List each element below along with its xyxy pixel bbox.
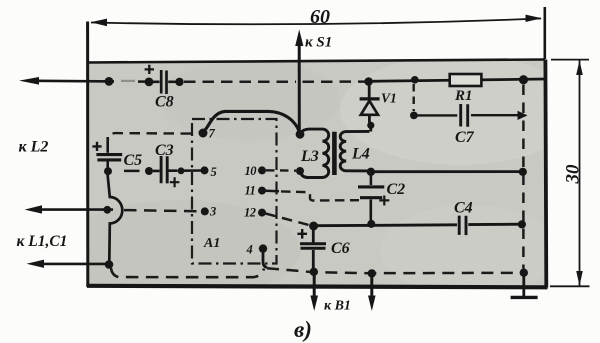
board outline left edge (with dimension tick extension) bbox=[86, 22, 89, 288]
dimension 60 left arrowhead bbox=[91, 19, 108, 27]
capacitor C3 bbox=[153, 156, 179, 187]
node (rail right end) bbox=[519, 75, 528, 84]
wire to L1 (left arrow, middle) bbox=[40, 208, 113, 211]
transformer winding L4 bbox=[340, 131, 370, 171]
wire к B1 (down arrow 1) bbox=[313, 274, 316, 297]
wire dashed right bus (vertical) bbox=[522, 85, 525, 269]
ground bbox=[511, 275, 538, 298]
capacitor C7 bbox=[417, 104, 518, 127]
svg-text:C8: C8 bbox=[155, 94, 174, 111]
resistor R1 bbox=[450, 74, 482, 86]
node (top-left junction) bbox=[105, 77, 114, 86]
svg-text:V1: V1 bbox=[381, 91, 397, 106]
node (lower rail right) bbox=[518, 220, 526, 228]
svg-text:к S1: к S1 bbox=[305, 35, 332, 51]
node (bottom-left junction) bbox=[105, 260, 114, 269]
svg-text:R1: R1 bbox=[454, 88, 473, 104]
svg-text:C6: C6 bbox=[331, 240, 350, 257]
pin 11 bbox=[258, 187, 266, 195]
svg-text:30: 30 bbox=[563, 164, 584, 185]
wire left vertical trace with crossover hop bbox=[108, 174, 123, 263]
dimension 30 line bbox=[579, 61, 581, 286]
transformer winding L3 bbox=[301, 129, 329, 177]
board outline top edge bbox=[88, 60, 546, 63]
node (rail / R1-C7 link) bbox=[411, 76, 419, 84]
wire top rail (solid, right) bbox=[369, 79, 545, 81]
capacitor C6 bbox=[297, 228, 326, 269]
node (C8 right) bbox=[175, 78, 183, 86]
svg-text:12: 12 bbox=[244, 206, 256, 220]
pin 4 bbox=[259, 244, 267, 252]
wire down arrow 2 bbox=[370, 275, 373, 297]
svg-text:11: 11 bbox=[245, 184, 256, 198]
pin 10 bbox=[258, 166, 266, 174]
capacitor C8 bbox=[145, 65, 176, 94]
node (lower rail / C2 bottom) bbox=[367, 220, 375, 228]
wire L3 bottom link bbox=[301, 173, 308, 178]
wire dashed link (R1 left to C7 left) bbox=[413, 84, 415, 111]
node (C6 top) bbox=[309, 222, 318, 231]
node (diode / L4 top) bbox=[367, 122, 374, 129]
wire dash C5-C3 bbox=[124, 170, 140, 173]
PCB board (gray fill) bbox=[89, 60, 546, 286]
dimension 30 bottom arrowhead bbox=[576, 271, 583, 286]
svg-text:в): в) bbox=[294, 317, 312, 342]
wire dashed pin10 to L3 bottom bbox=[266, 169, 296, 172]
dimension 60 tick right bbox=[543, 7, 546, 59]
capacitor C4 bbox=[459, 216, 466, 236]
dimension 30 top arrowhead bbox=[576, 60, 583, 75]
svg-text:к L1,C1: к L1,C1 bbox=[17, 233, 68, 250]
pin 5 bbox=[201, 166, 209, 174]
node (C3 right) bbox=[178, 167, 185, 174]
node (к S1 / L3 top junction) bbox=[296, 130, 305, 139]
wire dashed bottom perimeter bbox=[111, 268, 264, 277]
diode V1 bbox=[360, 84, 380, 132]
pin 3 bbox=[201, 207, 209, 215]
svg-text:5: 5 bbox=[211, 165, 217, 179]
node (ground bus corner) bbox=[520, 269, 528, 277]
svg-text:A1: A1 bbox=[203, 236, 220, 251]
svg-text:C3: C3 bbox=[155, 142, 174, 159]
svg-text:L3: L3 bbox=[300, 148, 319, 165]
wire dashed top row bbox=[184, 80, 365, 83]
node (mid rail right) bbox=[519, 168, 527, 176]
node (arrow / pin3 line junction in hop) bbox=[103, 206, 111, 214]
svg-text:L4: L4 bbox=[351, 146, 370, 163]
board outline right edge bbox=[544, 60, 549, 288]
IC A1 outline (dash-dot box) bbox=[192, 119, 277, 264]
wire mid rail (y=172) bbox=[372, 170, 523, 173]
svg-text:10: 10 bbox=[245, 164, 258, 178]
wire к S1 (output to switch, up arrow) bbox=[298, 43, 301, 133]
capacitor C2 bbox=[358, 174, 389, 223]
svg-text:C2: C2 bbox=[387, 181, 406, 198]
dimension 60 right arrowhead bbox=[526, 15, 543, 22]
dimension 60 line bbox=[91, 19, 541, 25]
svg-text:4: 4 bbox=[246, 243, 253, 257]
node (C6 bottom / B1 arrow) bbox=[310, 268, 318, 276]
node (C7 row left) bbox=[410, 112, 418, 120]
pin 12 bbox=[258, 209, 266, 217]
wire dashed to pin3 bbox=[124, 210, 201, 211]
node (diode top) bbox=[364, 77, 373, 86]
wire dashed pin12 diagonal bbox=[266, 214, 311, 226]
node (arrow 2 top) bbox=[368, 269, 376, 277]
svg-text:к В1: к В1 bbox=[324, 299, 351, 314]
wire C3 to pin5 bbox=[184, 169, 201, 172]
wire dashed C5 to IC box (top) bbox=[108, 133, 191, 141]
wire dashed pin11 to C2 bottom bbox=[262, 189, 279, 192]
dimension 30 top tick bbox=[551, 59, 589, 61]
dimension 30 bottom tick bbox=[550, 285, 590, 287]
svg-text:C5: C5 bbox=[124, 152, 143, 169]
pin 7 bbox=[199, 129, 208, 138]
svg-text:3: 3 bbox=[209, 205, 216, 219]
wire (faint dash to C8) bbox=[121, 80, 135, 82]
wire dashed pin4 to ground bus bbox=[267, 268, 521, 273]
node (L4 bottom / C2 top) bbox=[367, 168, 375, 176]
transformer core bbox=[332, 132, 337, 175]
node (C3 left) bbox=[145, 167, 153, 175]
wire to C1 (left arrow, lower) bbox=[42, 263, 106, 266]
node (C5 bottom) bbox=[104, 167, 112, 175]
board outline bottom edge bbox=[87, 286, 548, 288]
wire pin4 lead bbox=[263, 250, 267, 268]
svg-text:C4: C4 bbox=[454, 200, 473, 217]
wire to L2 (left arrow, top) bbox=[36, 80, 114, 83]
wire lower rail (y=224) bbox=[314, 224, 522, 226]
node (C7 row right, arrow-like junction) bbox=[518, 111, 528, 120]
wire pin7 to transformer (thick curved) bbox=[204, 111, 300, 131]
node (C8 left) bbox=[145, 78, 154, 87]
svg-text:C7: C7 bbox=[455, 129, 475, 146]
svg-text:60: 60 bbox=[310, 6, 330, 28]
capacitor C5 bbox=[92, 137, 122, 169]
svg-text:к L2: к L2 bbox=[19, 139, 49, 156]
node (L3 bottom) bbox=[296, 167, 304, 175]
svg-text:7: 7 bbox=[209, 127, 216, 141]
